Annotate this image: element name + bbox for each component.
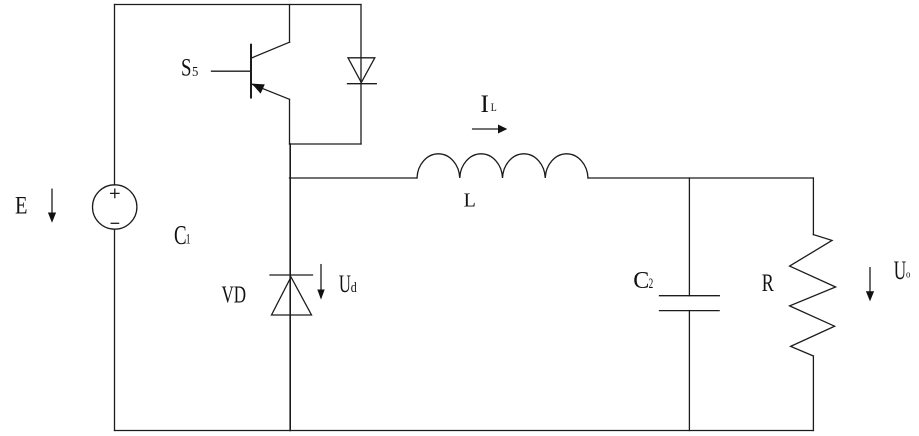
wire left vertical (lower) <box>114 229 116 430</box>
arrow IL <box>473 128 499 130</box>
capacitor C2 <box>688 178 690 296</box>
resistor R <box>812 178 814 235</box>
svg-text:5: 5 <box>192 65 198 80</box>
wire switch node to inductor <box>290 177 418 179</box>
arrowhead Ud <box>317 290 324 300</box>
svg-text:L: L <box>491 102 497 114</box>
arrowhead IL <box>498 125 507 134</box>
svg-text:U: U <box>339 271 351 298</box>
svg-text:1: 1 <box>186 232 191 248</box>
svg-text:R: R <box>762 270 774 297</box>
wire inductor to output <box>588 177 813 179</box>
svg-text:o: o <box>906 268 911 280</box>
svg-text:L: L <box>464 189 476 211</box>
wire bottom rail <box>115 430 814 432</box>
diode D (antiparallel) <box>360 5 362 145</box>
diode VD (freewheeling) <box>270 274 313 276</box>
arrow Ud <box>320 265 322 290</box>
inductor L <box>417 154 588 178</box>
svg-text:S: S <box>181 55 192 82</box>
svg-text:VD: VD <box>222 283 247 309</box>
wire top rail <box>115 4 362 6</box>
wire main vertical to ground rail <box>289 144 291 431</box>
arrowhead E <box>48 213 56 223</box>
svg-text:E: E <box>15 193 28 220</box>
wire left vertical (upper) <box>114 5 116 186</box>
arrowhead emitter S5 <box>252 84 265 94</box>
svg-text:I: I <box>480 91 489 118</box>
svg-text:2: 2 <box>649 276 654 292</box>
arrow Uo <box>869 268 871 292</box>
voltage source E <box>93 185 137 229</box>
svg-text:d: d <box>351 280 357 296</box>
wire emitter-diode link <box>290 143 362 145</box>
svg-text:C: C <box>633 268 649 294</box>
arrowhead Uo <box>866 291 874 301</box>
transistor S5 <box>250 45 252 98</box>
svg-text:U: U <box>894 256 907 285</box>
arrow E direction <box>51 189 53 213</box>
